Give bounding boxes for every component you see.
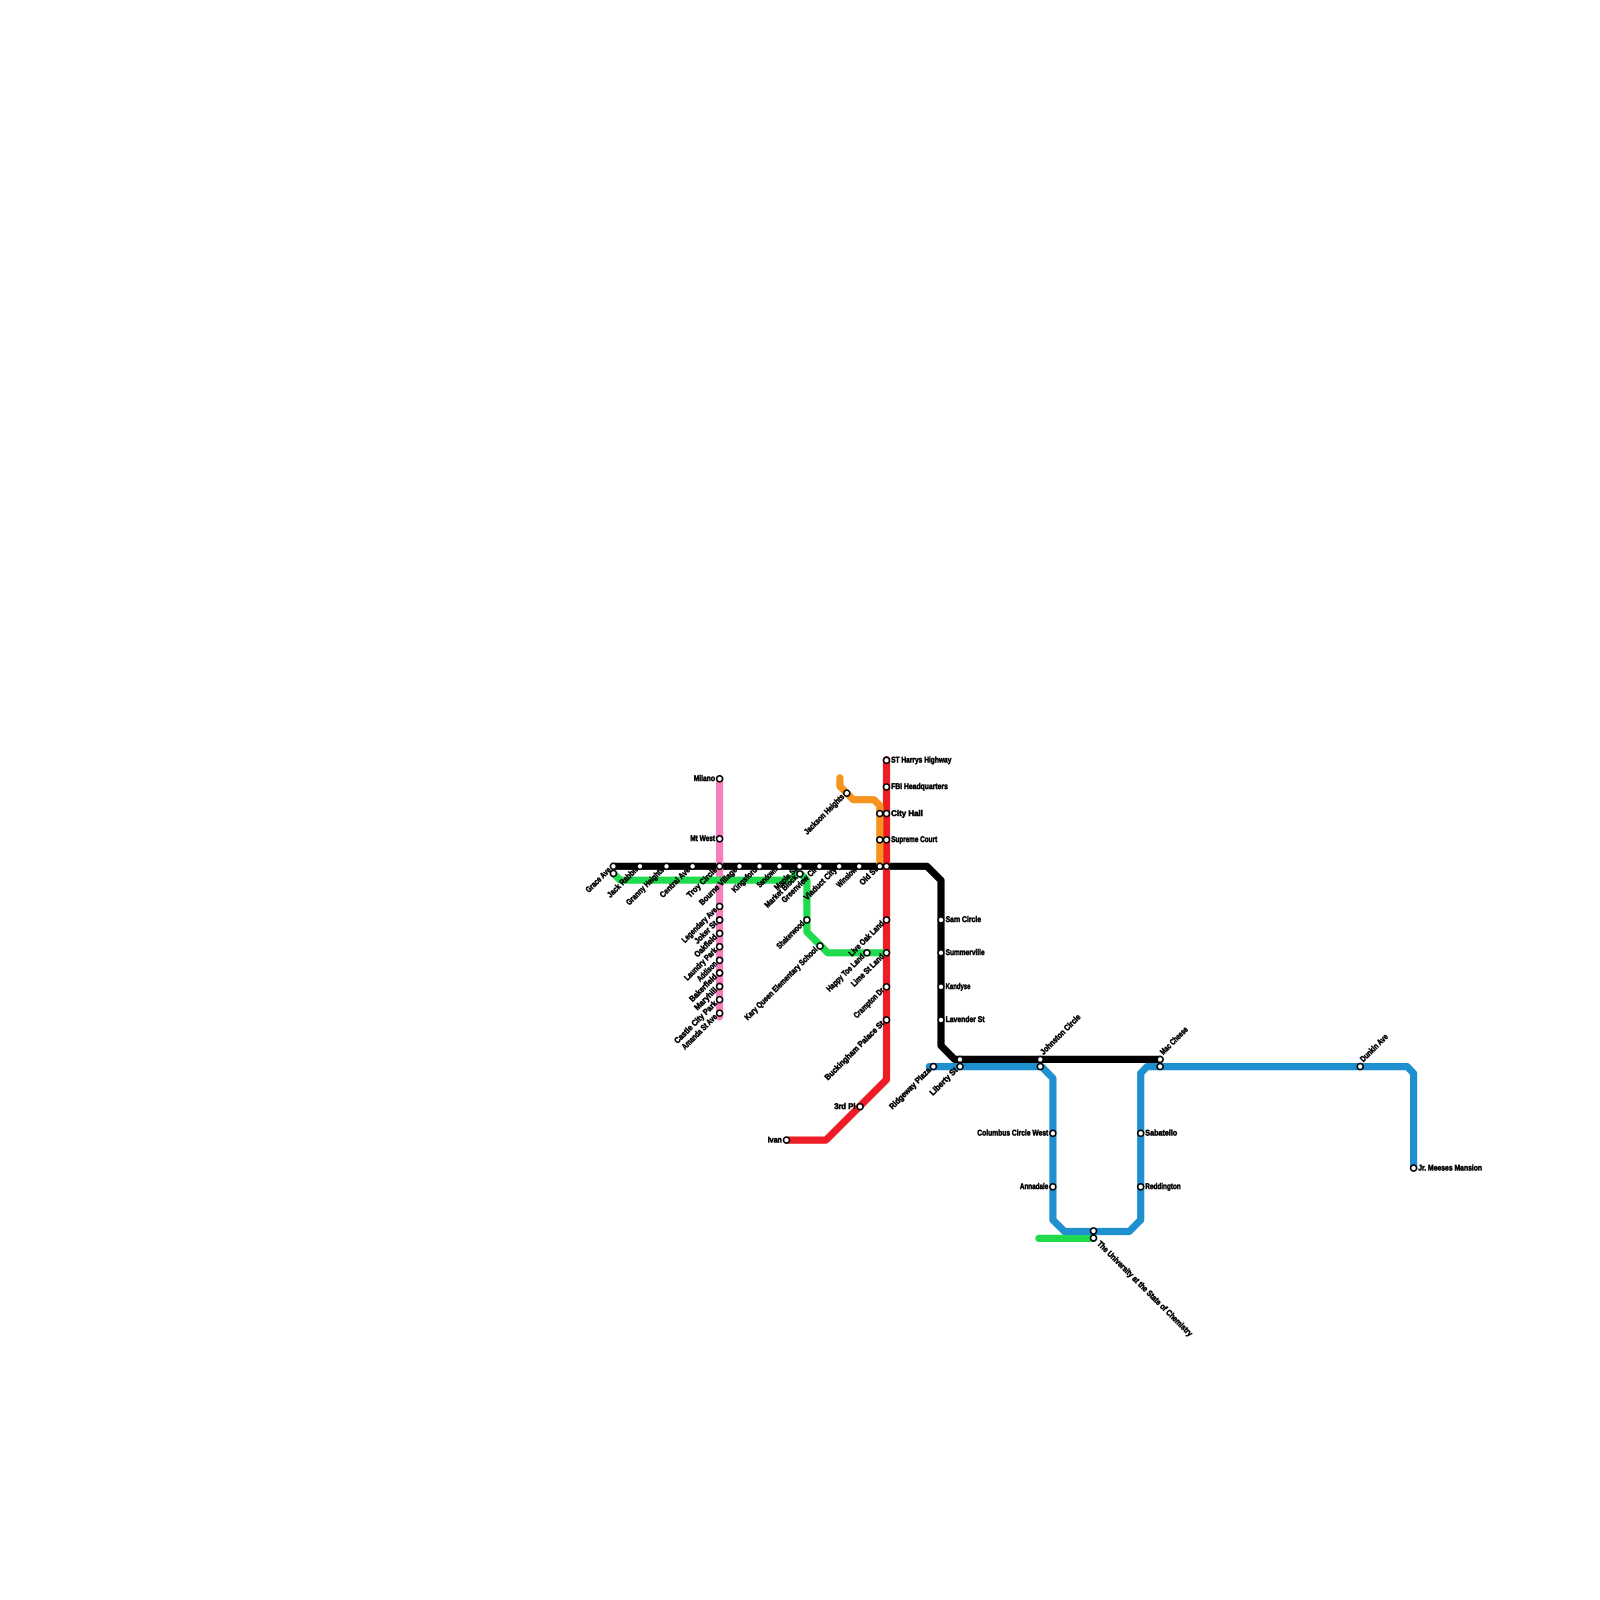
svg-text:Jr. Meeses Mansion: Jr. Meeses Mansion — [1418, 1163, 1482, 1172]
svg-text:3rd Pl: 3rd Pl — [834, 1102, 855, 1111]
svg-text:Sabatello: Sabatello — [1145, 1129, 1177, 1138]
svg-text:FBI Headquarters: FBI Headquarters — [891, 782, 948, 791]
svg-text:Reddington: Reddington — [1145, 1182, 1181, 1191]
svg-text:Mt West: Mt West — [690, 834, 715, 843]
svg-text:Kandyse: Kandyse — [946, 982, 971, 991]
svg-text:ST Harrys Highway: ST Harrys Highway — [891, 756, 952, 765]
svg-text:Columbus Circle West: Columbus Circle West — [977, 1129, 1048, 1138]
svg-text:Sam Circle: Sam Circle — [946, 915, 982, 924]
svg-text:Ivan: Ivan — [768, 1135, 782, 1144]
svg-text:Supreme Court: Supreme Court — [891, 835, 937, 844]
svg-text:City Hall: City Hall — [891, 809, 923, 818]
svg-text:Milano: Milano — [694, 774, 715, 783]
svg-text:Lavender St: Lavender St — [946, 1015, 985, 1024]
svg-text:Annadale: Annadale — [1020, 1182, 1049, 1191]
svg-text:Summerville: Summerville — [946, 948, 985, 957]
